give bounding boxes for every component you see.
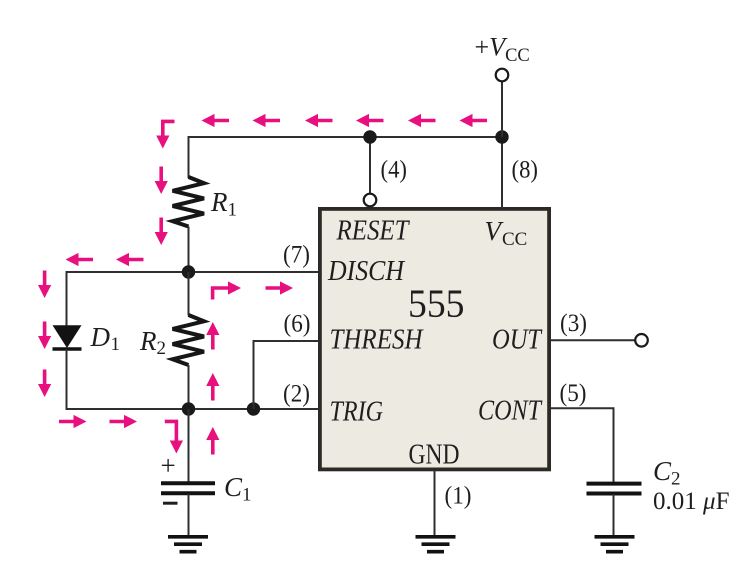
svg-text:555: 555 (408, 281, 465, 326)
svg-text:OUT: OUT (492, 325, 543, 356)
node: junction THRESH drop (247, 402, 260, 415)
wire: R2 bottom lead to TRIG junction (188, 365, 190, 409)
wire: +VCC lead (501, 81, 503, 137)
svg-text:2: 2 (671, 469, 681, 490)
wire: OUT pin 3 lead (551, 339, 636, 341)
svg-text:+VCC: +VCC (475, 33, 530, 67)
resistor R1 (173, 177, 204, 227)
svg-text:(6): (6) (284, 311, 311, 338)
svg-text:(7): (7) (283, 242, 310, 269)
svg-text:CONT: CONT (478, 396, 543, 427)
current arrow: right into DISCH pin (266, 281, 294, 294)
current arrow: down beside diode #3 (38, 370, 51, 398)
capacitor C1 top lead (188, 409, 190, 482)
current arrow: top rail left #2 (253, 114, 281, 127)
ground under C2 (595, 537, 635, 552)
node: junction top rail / pin 8 / +VCC (495, 130, 508, 143)
current arrow: down beside R1 #2 (155, 218, 168, 246)
wire: left branch vertical upper (to diode) (66, 271, 68, 326)
current arrow: left on DISCH wire #2 (116, 253, 144, 266)
svg-text:C: C (224, 472, 243, 502)
wire: top rail from R1 corner to pin-8 junction (189, 136, 503, 138)
diode D1 (53, 325, 82, 349)
svg-text:1: 1 (242, 485, 252, 506)
svg-text:R: R (210, 187, 228, 217)
wire: CONT pin 5 lead to C2 (551, 408, 614, 482)
current arrow: top rail left #4 (356, 114, 384, 127)
IC U1 555 box (320, 209, 549, 470)
current arrow: down beside diode #2 (38, 322, 51, 350)
wire: C1 bottom lead (188, 494, 190, 535)
svg-text:DISCH: DISCH (327, 256, 406, 287)
svg-text:(1): (1) (445, 483, 472, 510)
current arrow: down beside R1 #1 (155, 167, 168, 195)
svg-text:R: R (139, 326, 157, 356)
svg-text:(3): (3) (560, 310, 587, 337)
node: junction top rail / pin 4 (363, 130, 376, 143)
wire: R1 top lead from top rail corner (188, 136, 190, 178)
current arrow: down beside diode #1 (38, 271, 51, 299)
current arrow: up from C1 (206, 427, 219, 455)
current arrow: elbow turning down into C1 (165, 421, 183, 453)
label R1 (210, 187, 237, 221)
current arrow: right on bottom rail #1 (59, 415, 87, 428)
svg-text:RESET: RESET (336, 216, 411, 247)
current arrow: top rail left #3 (305, 114, 333, 127)
label - polarity of C1 (163, 502, 178, 505)
label D1 (90, 322, 121, 355)
current arrow: top rail left #1 (202, 114, 230, 127)
wire: pin 8 stub from top rail into IC (501, 137, 503, 208)
OUT open-circle terminal (pin 3) (635, 334, 648, 347)
svg-text:CC: CC (502, 229, 527, 250)
svg-text:(4): (4) (381, 157, 408, 184)
current arrow: right on bottom rail #2 (110, 415, 138, 428)
wire: GND pin 1 lead (434, 470, 436, 535)
current arrow: up beside R2 upper (206, 322, 219, 350)
label C1 (224, 472, 252, 506)
wire: R1 bottom lead to DISCH junction (188, 227, 190, 273)
wire: R2 top lead (188, 272, 190, 316)
current arrow: top rail left #6 (460, 114, 488, 127)
svg-text:2: 2 (157, 338, 167, 359)
capacitor C2 (587, 484, 642, 494)
resistor R2 (173, 315, 204, 365)
svg-text:(2): (2) (283, 381, 310, 408)
svg-text:GND: GND (409, 439, 460, 471)
+VCC open-circle terminal (496, 69, 509, 82)
current arrow: elbow turning right toward DISCH (213, 281, 241, 299)
label C2 (653, 456, 681, 490)
label VCC (pin name) (485, 216, 528, 250)
RESET open-circle terminal (pin 4) (364, 194, 377, 207)
current arrow: left on DISCH wire #1 (66, 253, 94, 266)
ground under C1 (168, 537, 208, 552)
svg-text:(5): (5) (560, 380, 587, 407)
current arrow: top rail left #5 (408, 114, 436, 127)
wire: left branch vertical lower (diode to bottom rail) (66, 349, 68, 410)
capacitor C1 (161, 483, 215, 493)
wire: bottom rail from left branch to IC pin 2 (67, 408, 319, 410)
svg-text:TRIG: TRIG (330, 397, 384, 428)
label R2 (139, 326, 166, 359)
svg-text:THRESH: THRESH (330, 325, 425, 356)
current arrow: elbow turning down at top-left corner (156, 121, 174, 148)
svg-text:D: D (90, 322, 111, 352)
node: junction TRIG/C1 (182, 402, 195, 415)
wire: C2 bottom lead (613, 494, 615, 535)
svg-text:+: + (161, 451, 176, 481)
current arrow: up beside R2 lower (206, 373, 219, 401)
node: junction R1/R2/DISCH (182, 265, 195, 278)
svg-text:1: 1 (111, 334, 121, 355)
wire: THRESH stub up and right to IC pin 6 (254, 341, 319, 409)
wire: pin 4 stub from top rail to RESET bubble (369, 137, 371, 194)
svg-text:1: 1 (228, 200, 238, 221)
svg-text:0.01 μF: 0.01 μF (653, 488, 729, 515)
ground under GND pin 1 (416, 537, 456, 552)
svg-text:(8): (8) (512, 157, 539, 184)
wire: DISCH horizontal from left branch to IC pin 7 (67, 271, 319, 273)
svg-text:C: C (653, 456, 672, 486)
